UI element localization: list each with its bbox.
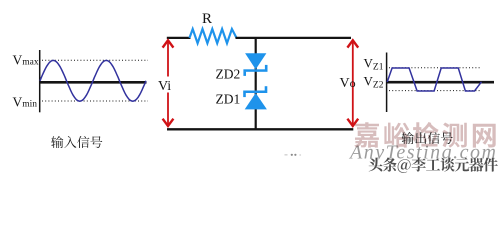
label R: [202, 11, 212, 27]
input sine wave: [40, 60, 146, 101]
svg-text:ZD1: ZD1: [216, 91, 241, 106]
watermark 头条@李工谈元器件 (embossed gray): [369, 158, 499, 175]
label Vi: [157, 77, 173, 94]
zener diode ZD1 (cathode up): [243, 86, 267, 109]
label VZ1: [364, 56, 384, 73]
wire top right: [236, 37, 352, 39]
wire diode branch (vertical): [255, 38, 257, 129]
label ZD2: [216, 66, 241, 81]
input graph Vmax dotted level line: [42, 59, 148, 61]
label VZ2: [364, 74, 384, 91]
arrow Vo (output voltage, red double arrow): [347, 40, 358, 126]
input graph Vmin dotted level line: [42, 100, 148, 102]
svg-text:Vi: Vi: [158, 79, 171, 94]
output graph vertical axis: [386, 53, 388, 113]
label Vmin: [13, 95, 38, 110]
svg-text:R: R: [202, 11, 212, 27]
label ZD1: [216, 91, 241, 106]
arrow Vi (input voltage, red double arrow): [163, 40, 174, 126]
svg-text:ZD2: ZD2: [216, 66, 241, 81]
output clipped waveform: [387, 68, 481, 91]
label 输出信号 (output signal): [402, 132, 453, 144]
resistor R: [190, 29, 237, 43]
wire top left: [167, 37, 191, 39]
watermark AnyTesting.com (pale italic): [348, 142, 497, 164]
label Vo: [340, 76, 356, 91]
ellipsis mark: [285, 154, 302, 156]
output graph VZ1 dotted level line: [389, 67, 480, 69]
output graph VZ2 dotted level line: [389, 90, 480, 92]
label 输入信号 (input signal): [51, 136, 102, 148]
input graph horizontal axis: [39, 81, 147, 84]
zener diode ZD2 (cathode down): [243, 53, 267, 76]
wire bottom: [167, 128, 353, 130]
output graph horizontal axis: [386, 81, 494, 84]
svg-text:Vo: Vo: [340, 76, 356, 91]
watermark 嘉峪检测网 (pale red): [354, 122, 495, 148]
input graph vertical axis: [39, 50, 41, 112]
label Vmax: [13, 53, 39, 68]
